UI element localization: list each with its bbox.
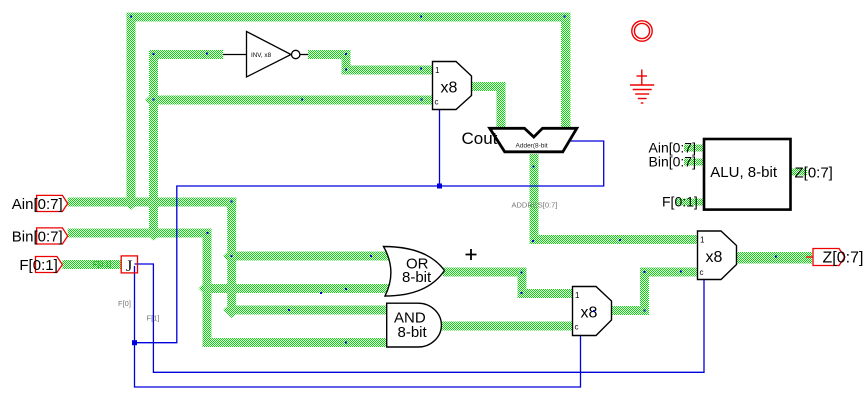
inverter U1 INV,x8 input pin bbox=[223, 54, 247, 56]
svg-text:Adder(8-bit: Adder(8-bit bbox=[516, 143, 548, 150]
svg-text:F[0:1]: F[0:1] bbox=[19, 257, 57, 274]
junction: OR bottom branch on Bin vertical bbox=[199, 281, 216, 297]
wire: adder carry-in loop from adder right pin bbox=[135, 141, 604, 343]
adder U3 body bbox=[490, 128, 577, 152]
wire bus: INV output jog vertical bbox=[342, 50, 351, 75]
svg-text:J: J bbox=[126, 258, 132, 275]
svg-text:Bin[0:7]: Bin[0:7] bbox=[12, 229, 63, 246]
svg-text:Z[0:7]: Z[0:7] bbox=[795, 164, 833, 181]
svg-text:F[0]: F[0] bbox=[118, 299, 131, 308]
junction: Bin riser joins Bin bus bbox=[145, 225, 162, 241]
svg-text:ALU, 8-bit: ALU, 8-bit bbox=[710, 164, 778, 181]
wire: F0 net from J tap down and to middle mux select bbox=[135, 266, 581, 387]
wire bus: INV input stub bbox=[149, 50, 223, 59]
wire bus: F input bus to J tap bbox=[62, 260, 121, 269]
svg-text:1: 1 bbox=[435, 66, 440, 75]
inverter U1 body bbox=[247, 32, 292, 78]
svg-text:1: 1 bbox=[575, 291, 580, 300]
inverter U1 output pin bbox=[300, 54, 308, 56]
pin stub: ALU symbol Ain pin bbox=[684, 145, 704, 152]
wire: top mux select line bbox=[439, 110, 441, 187]
junction dot: F0 net at x134 bbox=[132, 340, 137, 345]
wire bus: horizontal branch to top mux c input bbox=[149, 96, 433, 105]
wire bus: OR output to middle mux 1 input bbox=[518, 289, 573, 298]
svg-text:F[0:1]: F[0:1] bbox=[93, 262, 111, 269]
wire bus: middle mux output riser bbox=[640, 268, 649, 316]
wire bus: INV output horizontal bbox=[308, 50, 351, 59]
svg-text:Cout: Cout bbox=[462, 129, 498, 148]
svg-text:F[0:1]: F[0:1] bbox=[662, 194, 698, 210]
svg-text:x8: x8 bbox=[441, 80, 458, 97]
wire bus: top horizontal run (Ain to adder) bbox=[127, 13, 571, 22]
svg-text:8-bit: 8-bit bbox=[398, 324, 428, 341]
wire bus: final mux output to Z port bbox=[737, 252, 813, 264]
svg-text:F[1]: F[1] bbox=[147, 314, 160, 323]
svg-text:1: 1 bbox=[700, 236, 705, 245]
wire bus: Ain to AND gate top input bbox=[227, 306, 386, 315]
wire bus: Bin to AND gate bottom input bbox=[203, 338, 387, 347]
vertex dots on buses bbox=[130, 16, 777, 344]
wire bus: OR output jog vertical bbox=[518, 268, 527, 299]
wire bus: OR gate output horizontal bbox=[443, 268, 527, 277]
wire bus: INV output to top mux 1 input bbox=[342, 66, 433, 75]
bus tap J bbox=[121, 256, 137, 273]
wire bus: Ain vertical down to AND gate level bbox=[227, 198, 236, 315]
ALU block U4 bbox=[704, 139, 791, 210]
svg-text:c: c bbox=[700, 268, 704, 277]
svg-text:x8: x8 bbox=[581, 305, 598, 322]
svg-text:Bin[0:7]: Bin[0:7] bbox=[649, 154, 696, 170]
wire bus: left vertical from top run down to Ain bus bbox=[127, 13, 136, 207]
junction: Ain vertical turns to AND top input bbox=[223, 302, 240, 318]
pin stub: ALU symbol F pin bbox=[676, 199, 704, 206]
wire bus: middle mux output to final mux c input bbox=[640, 268, 698, 277]
wire bus: Bin input bus bbox=[68, 229, 212, 238]
wire bus: Bin vertical down to AND gate level bbox=[203, 229, 212, 348]
mux U7 x8 body (middle) bbox=[573, 287, 612, 336]
ground symbol bbox=[630, 70, 654, 104]
plus annotation bbox=[466, 249, 477, 260]
svg-text:Z[0:7]: Z[0:7] bbox=[823, 250, 864, 267]
junction: OR top branch on Ain vertical bbox=[223, 248, 240, 264]
mux U8 x8 body (final) bbox=[698, 231, 737, 280]
OR gate U5 body bbox=[384, 247, 445, 297]
AND gate U6 body bbox=[387, 303, 442, 347]
junction dot: top mux select meets carry line bbox=[437, 184, 442, 189]
power symbol (red circle) bbox=[632, 21, 652, 41]
svg-text:x8: x8 bbox=[706, 249, 723, 266]
wire bus: Ain input bus bbox=[68, 198, 237, 207]
wire bus: AND gate output to middle mux c input bbox=[439, 322, 573, 331]
wire bus: adder sum output vertical bbox=[530, 154, 539, 244]
pin stub: ALU symbol Bin pin bbox=[684, 159, 704, 166]
svg-text:INV, x8: INV, x8 bbox=[251, 52, 272, 59]
port Bin[0:7] symbol bbox=[37, 228, 68, 244]
wire bus: adder sum to final mux 1 input bbox=[530, 235, 698, 244]
svg-text:ADDRES[0:7]: ADDRES[0:7] bbox=[512, 201, 558, 210]
wire bus: top mux output horizontal bbox=[472, 82, 506, 91]
wire bus: Bin to OR gate bottom input bbox=[203, 284, 394, 293]
junction: top-run riser joins Ain bus bbox=[123, 194, 140, 210]
inverter U1 bubble bbox=[292, 50, 300, 58]
wire bus: top mux output down to adder left input bbox=[497, 82, 506, 128]
svg-text:Ain[0:7]: Ain[0:7] bbox=[12, 196, 63, 213]
wire bus: Ain to OR gate top input bbox=[227, 252, 394, 261]
svg-text:c: c bbox=[435, 98, 439, 107]
svg-text:8-bit: 8-bit bbox=[402, 269, 432, 286]
wire bus: vertical Bin riser to INV input level bbox=[149, 50, 158, 238]
pin stub: ALU symbol Z pin bbox=[791, 169, 808, 176]
wire: F1 net from J tap to final mux select bbox=[135, 264, 705, 372]
wire bus: vertical from top run to adder right input bbox=[561, 13, 571, 129]
junction: branch to mux c on Bin riser bbox=[145, 92, 162, 108]
wire bus: middle mux output horizontal bbox=[612, 306, 650, 315]
mux U2 x8 body (top) bbox=[433, 62, 472, 110]
port Z[0:7] symbol bbox=[806, 256, 813, 258]
port F[0:1] symbol bbox=[36, 257, 63, 273]
port Ain[0:7] symbol bbox=[37, 195, 68, 211]
svg-text:c: c bbox=[575, 323, 579, 332]
